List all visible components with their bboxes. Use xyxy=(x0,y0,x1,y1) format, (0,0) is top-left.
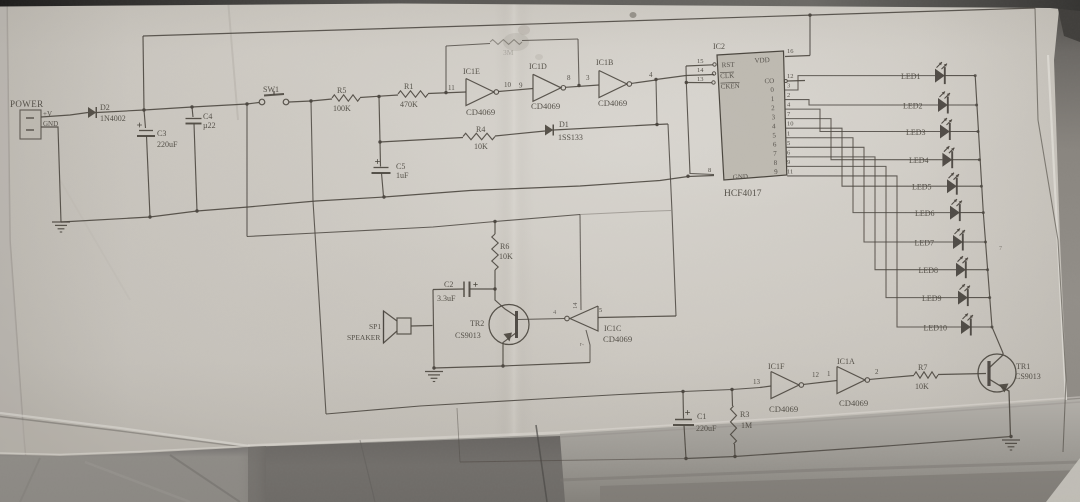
RST/CKEN tie vertical down to GND pin 8 xyxy=(685,66,687,83)
svg-text:SW1: SW1 xyxy=(263,85,279,94)
ground symbol at power input xyxy=(52,221,70,223)
svg-text:5: 5 xyxy=(787,140,790,147)
top +V rail xyxy=(143,8,1035,36)
svg-text:LED7: LED7 xyxy=(915,239,935,248)
LED9 xyxy=(958,291,968,305)
capacitor C4 u22 xyxy=(192,107,193,117)
resistor R4 10K xyxy=(463,133,495,139)
svg-text:14: 14 xyxy=(572,302,579,309)
svg-text:470K: 470K xyxy=(400,100,418,109)
emitter ground line xyxy=(434,363,590,369)
svg-text:CS9013: CS9013 xyxy=(455,331,481,340)
inverter IC1B xyxy=(599,71,627,98)
svg-text:9: 9 xyxy=(519,82,523,90)
wire IC1B out to IC2 clock, pin 4 xyxy=(631,80,656,83)
svg-text:1SS133: 1SS133 xyxy=(558,133,583,142)
svg-text:R6: R6 xyxy=(500,242,509,251)
vertical from D1 line down to IC1C input xyxy=(668,124,676,316)
svg-text:LED4: LED4 xyxy=(909,156,929,165)
wire IC2 output 2 (pin 4) to LED3 xyxy=(785,109,940,131)
svg-text:13: 13 xyxy=(753,378,761,386)
bottom ground rail xyxy=(460,459,686,463)
IC1C VDD drop (pin 14) xyxy=(580,215,581,311)
wire IC1E out to IC1D in, pins 10 9 xyxy=(499,89,534,92)
+V wire from connector through D2 xyxy=(41,113,88,118)
resistor R7 10K xyxy=(914,372,938,378)
svg-text:10: 10 xyxy=(504,81,512,89)
svg-text:IC1A: IC1A xyxy=(837,357,855,366)
svg-text:R3: R3 xyxy=(740,410,749,419)
wire IC1F out to IC1A in, pins 12 1 xyxy=(804,381,837,385)
IC2 CO pin 12 stub xyxy=(784,80,787,83)
LED4 xyxy=(942,153,952,167)
svg-text:4: 4 xyxy=(649,71,653,79)
svg-text:CO: CO xyxy=(764,77,774,85)
svg-text:R7: R7 xyxy=(918,363,927,372)
svg-text:LED6: LED6 xyxy=(915,209,935,218)
+V branch down to VDD rail xyxy=(246,104,248,237)
svg-text:IC1D: IC1D xyxy=(529,62,547,71)
svg-text:LED9: LED9 xyxy=(922,294,942,303)
vertical R5/R1 junction down to C5 and R4 line xyxy=(379,97,380,143)
ground symbol TR1 emitter xyxy=(1009,435,1012,438)
wire R7 to TR1 base xyxy=(938,374,986,375)
svg-text:12: 12 xyxy=(787,73,794,80)
capacitor C1 220uF xyxy=(682,392,685,419)
LED10 xyxy=(961,320,971,334)
wire SW1 to R5 xyxy=(289,101,311,102)
svg-text:POWER: POWER xyxy=(10,99,44,109)
wire R5 to R1 xyxy=(360,95,398,98)
svg-text:220uF: 220uF xyxy=(157,140,178,149)
power connector J1 xyxy=(20,110,41,139)
wire IC1D out to IC1B in, pins 8 3 xyxy=(565,85,599,87)
wire D2 to SW1 xyxy=(97,103,259,113)
wire IC2 output 4 (pin 10) to LED5 xyxy=(786,128,947,186)
svg-text:CD4069: CD4069 xyxy=(598,98,627,108)
ground rail (bottom of power section) to IC2 pin8 xyxy=(61,176,714,223)
capacitor C2 3.3uF xyxy=(433,288,464,291)
svg-text:1M: 1M xyxy=(741,421,752,430)
svg-text:C4: C4 xyxy=(203,112,212,121)
svg-text:CKEN: CKEN xyxy=(721,82,740,91)
svg-text:CD4069: CD4069 xyxy=(839,398,868,408)
svg-text:3.3uF: 3.3uF xyxy=(437,294,456,303)
svg-text:10K: 10K xyxy=(474,142,488,151)
LED7 xyxy=(953,235,963,249)
svg-text:5: 5 xyxy=(599,307,602,314)
svg-text:C1: C1 xyxy=(697,412,706,421)
svg-text:3: 3 xyxy=(586,74,590,82)
inverter IC1C (points left) xyxy=(570,306,598,331)
svg-text:9: 9 xyxy=(787,159,790,166)
svg-text:CD4069: CD4069 xyxy=(769,404,798,414)
svg-text:SPEAKER: SPEAKER xyxy=(347,333,380,342)
wire IC2 output 3 (pin 7) to LED4 xyxy=(785,119,942,160)
LED8 xyxy=(956,263,966,277)
svg-text:RST: RST xyxy=(722,61,736,70)
IC1C output to TR2 base, pin 4 xyxy=(518,319,565,320)
ground wire from connector xyxy=(41,127,61,222)
svg-text:10K: 10K xyxy=(915,382,929,391)
long timing vertical from SW1/R5 junction down xyxy=(311,101,326,414)
svg-text:IC1E: IC1E xyxy=(463,67,480,76)
LED bus (cathode column) down to TR1 collector xyxy=(975,76,1003,353)
wire R1 to IC1E input, pin 11 xyxy=(428,92,466,94)
svg-text:1uF: 1uF xyxy=(396,171,409,180)
svg-text:R4: R4 xyxy=(476,125,485,134)
wire speaker to C2 branch xyxy=(411,325,433,328)
resistor R3 1M (vertical) xyxy=(731,390,734,407)
svg-text:µ22: µ22 xyxy=(203,121,216,130)
svg-text:CD4069: CD4069 xyxy=(603,334,632,344)
wire IC2 output 1 (pin 2) to LED2 xyxy=(785,100,938,105)
svg-text:IC1F: IC1F xyxy=(768,362,785,371)
LED1 xyxy=(935,69,945,83)
ground symbol TR2 emitter xyxy=(425,371,443,373)
svg-text:15: 15 xyxy=(697,58,704,65)
wire IC2 output 6 (pin 5) to LED7 xyxy=(786,147,953,242)
LED5 xyxy=(947,179,957,193)
svg-text:100K: 100K xyxy=(333,104,351,113)
resistor R1 470K xyxy=(398,91,428,97)
feedback loop right vertical to IC1D output xyxy=(578,39,579,86)
svg-text:16: 16 xyxy=(787,48,794,55)
svg-text:LED5: LED5 xyxy=(912,183,932,192)
svg-text:CD4069: CD4069 xyxy=(531,101,560,111)
svg-text:CS9013: CS9013 xyxy=(1015,372,1041,381)
inverter IC1A xyxy=(837,367,865,394)
svg-text:LED2: LED2 xyxy=(903,102,923,111)
svg-text:7: 7 xyxy=(999,246,1002,252)
svg-text:1N4002: 1N4002 xyxy=(100,114,126,123)
resistor R6 10K (vertical) xyxy=(494,222,496,235)
VDD rail (mid) xyxy=(247,215,580,237)
svg-text:SP1: SP1 xyxy=(369,322,381,331)
IC2 HCF4017 body xyxy=(717,51,787,180)
capacitor C5 1uF xyxy=(379,142,382,167)
svg-text:C2: C2 xyxy=(444,280,453,289)
faint VDD rail continuation xyxy=(580,211,671,215)
bottom signal line to C1 R3 IC1F xyxy=(326,388,760,415)
svg-text:TR2: TR2 xyxy=(470,319,484,328)
svg-text:CLK: CLK xyxy=(720,72,734,81)
svg-text:10: 10 xyxy=(787,121,794,128)
diode D1 1SS133 xyxy=(545,125,553,136)
wire IC2 output 7 (pin 6) to LED8 xyxy=(787,157,956,270)
capacitor C3 220uF xyxy=(144,110,146,128)
svg-text:8: 8 xyxy=(567,74,571,82)
svg-text:LED10: LED10 xyxy=(924,324,948,333)
svg-text:C3: C3 xyxy=(157,129,166,138)
feedback loop top: left vertical xyxy=(445,46,447,93)
svg-text:C5: C5 xyxy=(396,162,405,171)
svg-text:2: 2 xyxy=(787,92,790,99)
svg-text:LED8: LED8 xyxy=(919,266,939,275)
vertical IC1B output junction down to D1 line xyxy=(656,80,657,125)
svg-text:IC1B: IC1B xyxy=(596,58,613,67)
speaker SP1 xyxy=(397,318,411,334)
wire IC2 output 5 (pin 1) to LED6 xyxy=(786,138,950,213)
svg-text:220uF: 220uF xyxy=(696,424,717,433)
wire IC2 output 0 (pin 3) to LED1 xyxy=(785,76,936,90)
top loop line with resistor (3M) xyxy=(446,44,490,47)
svg-text:3M: 3M xyxy=(503,48,514,57)
svg-text:12: 12 xyxy=(812,371,820,379)
svg-text:HCF4017: HCF4017 xyxy=(724,189,762,199)
feedback line with R4 and D1 xyxy=(380,138,463,143)
inverter IC1F xyxy=(771,372,799,399)
inverter IC1D xyxy=(533,74,561,101)
svg-text:R5: R5 xyxy=(337,86,346,95)
vertical C2-left branch down to ground junction xyxy=(433,290,434,369)
resistor R5 100K xyxy=(332,95,360,101)
svg-text:IC2: IC2 xyxy=(713,42,725,51)
transistor TR2 CS9013 xyxy=(489,305,529,345)
switch SW1 xyxy=(259,99,265,105)
svg-text:LED3: LED3 xyxy=(906,128,926,137)
svg-text:11: 11 xyxy=(787,168,793,175)
svg-text:CD4069: CD4069 xyxy=(466,107,495,117)
svg-text:D1: D1 xyxy=(559,120,569,129)
svg-text:13: 13 xyxy=(697,76,704,83)
LED3 xyxy=(940,125,950,139)
schematic right border xyxy=(1035,8,1066,452)
svg-text:1: 1 xyxy=(827,370,831,378)
svg-text:11: 11 xyxy=(448,84,455,92)
IC1C VSS (pin 7) to ground line xyxy=(586,330,590,363)
inverter IC1E xyxy=(466,79,494,106)
svg-text:D2: D2 xyxy=(100,103,110,112)
svg-text:R1: R1 xyxy=(404,82,413,91)
left vertical from top rail to +V line xyxy=(143,36,144,110)
svg-text:2: 2 xyxy=(875,368,879,376)
svg-text:LED1: LED1 xyxy=(901,72,921,81)
svg-text:1: 1 xyxy=(787,130,790,137)
svg-text:10K: 10K xyxy=(499,252,513,261)
wire IC2 output 8 (pin 9) to LED9 xyxy=(787,166,958,297)
svg-text:TR1: TR1 xyxy=(1016,362,1030,371)
svg-text:IC1C: IC1C xyxy=(604,324,621,333)
LED2 xyxy=(938,98,948,112)
svg-text:VDD: VDD xyxy=(754,56,770,65)
LED6 xyxy=(950,206,960,220)
wire IC1A out to R7, pin 2 xyxy=(870,376,914,380)
diode D2 xyxy=(88,107,96,118)
svg-text:8: 8 xyxy=(708,167,711,174)
IC2 VDD pin 16 to top rail xyxy=(785,56,810,57)
svg-text:3: 3 xyxy=(787,83,790,90)
svg-text:14: 14 xyxy=(697,67,704,74)
transistor TR1 CS9013 xyxy=(978,354,1016,392)
IC2 left pins 15 14 13 xyxy=(713,63,716,66)
svg-text:GND: GND xyxy=(733,173,749,182)
wire IC2 output 9 (pin 11) to LED10 xyxy=(787,176,961,327)
IC1C input wire, pin 5 xyxy=(598,316,676,318)
